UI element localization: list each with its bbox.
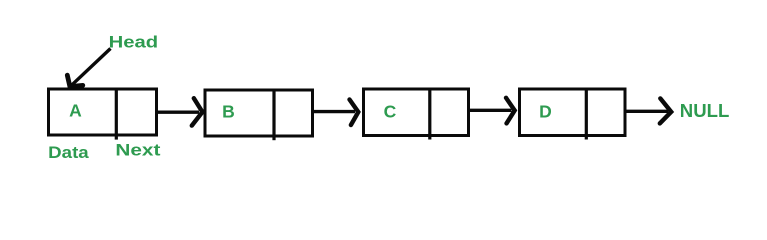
arrowhead B to C [350, 100, 359, 126]
arrowhead A to B [192, 98, 203, 125]
arrowhead C to D [506, 98, 515, 124]
wire arrow D to NULL shaft [625, 110, 668, 113]
node A box [49, 89, 157, 135]
node D box [520, 89, 626, 136]
svg-text:Data: Data [48, 143, 89, 162]
node C divider [428, 89, 431, 140]
svg-text:NULL: NULL [680, 100, 730, 121]
node B divider [272, 90, 275, 140]
wire head pointer shaft [72, 49, 111, 85]
wire arrow A to B shaft [157, 110, 200, 113]
node B box [205, 90, 313, 136]
svg-text:C: C [384, 102, 397, 122]
svg-text:B: B [222, 102, 235, 122]
head pointer arrowhead [67, 75, 83, 86]
wire arrow C to D shaft [469, 109, 512, 112]
svg-text:Next: Next [115, 142, 161, 160]
svg-text:Head: Head [109, 34, 159, 52]
svg-text:D: D [539, 102, 552, 122]
node A divider [115, 89, 118, 140]
node C box [364, 89, 469, 136]
arrowhead D to NULL [660, 98, 671, 123]
node D divider [585, 89, 588, 140]
wire arrow B to C shaft [313, 110, 356, 113]
svg-text:A: A [69, 101, 82, 121]
